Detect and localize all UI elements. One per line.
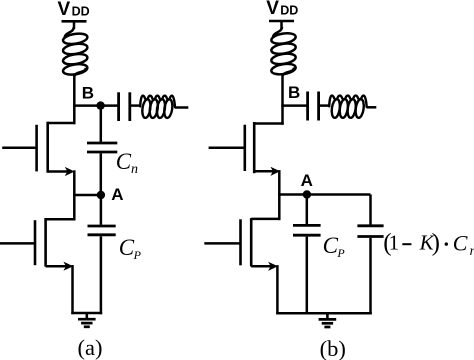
capacitor Cn plates (a) — [87, 143, 117, 152]
transistor M1 drain lead (a) — [48, 122, 76, 125]
svg-text:DD: DD — [280, 3, 298, 17]
wire L3 bottom to drain (b) — [281, 75, 284, 125]
node A wire (b) — [278, 193, 370, 196]
svg-text:C: C — [323, 233, 339, 258]
svg-text:V: V — [58, 0, 71, 20]
ground symbol (a) — [78, 313, 96, 327]
transistor M2 drain lead (a) — [46, 218, 76, 221]
svg-text:C: C — [119, 235, 135, 260]
svg-text:C: C — [453, 231, 468, 256]
transistor M3 source lead with arrow (b) — [254, 167, 280, 176]
transistor M2 gate bar (a) — [34, 220, 37, 265]
transistor M4 drain lead (b) — [251, 218, 280, 221]
label (1-K)Cn (b) — [383, 230, 474, 259]
inductor L2 output coil (a) — [140, 96, 175, 119]
wire M3 source to node A to M4 drain (b) — [278, 170, 281, 220]
label CP (a) — [119, 235, 142, 262]
svg-text:(b): (b) — [320, 336, 346, 360]
ground symbol (b) — [319, 313, 337, 327]
transistor M4 gate bar (b) — [239, 219, 242, 265]
wire M4 source down (b) — [276, 265, 279, 314]
transistor M3 channel bar (b) — [253, 122, 256, 173]
ground rail (a) — [71, 312, 102, 315]
svg-text:B: B — [82, 83, 94, 102]
capacitor (1-K)Cn bottom wire (b) — [369, 238, 372, 315]
node B wire (b) — [281, 104, 306, 107]
inductor L1 drain coil (a) — [62, 27, 88, 76]
label CP (b) — [323, 233, 346, 260]
transistor M1 source lead with arrow (a) — [48, 167, 75, 176]
svg-text:1: 1 — [389, 230, 400, 254]
svg-text:n: n — [470, 244, 474, 259]
svg-text:P: P — [336, 246, 345, 260]
wire L1 bottom to drain (a) — [73, 76, 76, 125]
capacitor CP plates (a) — [88, 226, 116, 235]
svg-text:P: P — [133, 248, 142, 262]
transistor M4 source lead with arrow (b) — [251, 262, 278, 271]
capacitor CP bottom wire (a) — [100, 236, 103, 314]
capacitor CP feed wire (a) — [100, 195, 103, 225]
transistor M4 channel bar (b) — [250, 218, 253, 266]
capacitor Cn bottom wire (a) — [100, 153, 103, 195]
VDD terminal bar (a) — [62, 21, 87, 29]
capacitor CP feed wire (b) — [306, 195, 309, 225]
svg-text:A: A — [301, 171, 313, 190]
label Cn (a) — [116, 149, 138, 177]
wire cap to L2 (a) — [130, 104, 141, 107]
transistor M2 channel bar (a) — [44, 218, 47, 267]
power label VDD (b) — [266, 0, 298, 19]
svg-text:DD: DD — [72, 5, 90, 19]
svg-text:C: C — [116, 149, 132, 174]
power label VDD (a) — [58, 0, 90, 20]
inductor L4 output coil (b) — [329, 96, 367, 119]
transistor M1 top (a) gate lead — [2, 147, 36, 150]
node A wire (a) — [73, 194, 101, 197]
transistor M3 drain lead (b) — [254, 122, 284, 125]
ground rail (b) — [276, 312, 372, 315]
output wire end (b) — [367, 106, 377, 109]
transistor M3 top (b) gate lead — [209, 147, 245, 150]
svg-text:): ) — [432, 230, 440, 257]
VDD terminal bar (b) — [269, 21, 294, 29]
svg-text:n: n — [131, 162, 138, 177]
capacitor (1-K)Cn feed wire (b) — [369, 195, 372, 225]
capacitor CP plates (b) — [293, 225, 321, 235]
capacitor Cn feed wire (a) — [100, 106, 103, 142]
svg-text:A: A — [111, 185, 123, 204]
transistor M1 channel bar (a) — [46, 122, 49, 173]
transistor M1 gate bar (a) — [35, 125, 38, 172]
node B junction dot (a) — [96, 101, 104, 109]
transistor M3 gate bar (b) — [244, 125, 247, 171]
output wire end (a) — [175, 106, 189, 109]
coupling capacitor plates (a) — [119, 92, 130, 121]
node A junction dot (a) — [97, 191, 105, 199]
svg-text:V: V — [266, 0, 279, 19]
wire M2 source down (a) — [71, 265, 74, 314]
coupling capacitor plates (b) — [308, 92, 319, 121]
transistor M2 source lead with arrow (a) — [46, 262, 74, 271]
wire cap to L4 (b) — [319, 104, 330, 107]
svg-text:(a): (a) — [78, 335, 103, 360]
svg-text:B: B — [288, 83, 300, 102]
node A junction dot (b) — [303, 190, 311, 198]
transistor M4 bottom (b) gate lead — [204, 242, 240, 245]
capacitor CP bottom wire (b) — [306, 237, 309, 315]
inductor L3 drain coil (b) — [271, 27, 297, 76]
capacitor (1-K)Cn plates (b) — [357, 226, 383, 237]
node B wire (a) — [73, 104, 117, 107]
transistor M2 bottom (a) gate lead — [0, 242, 35, 245]
wire M1 source to node A to M2 drain (a) — [73, 170, 76, 220]
